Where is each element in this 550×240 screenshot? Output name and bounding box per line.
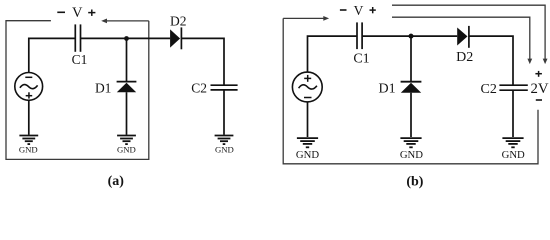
svg-text:C2: C2 [191, 81, 207, 96]
voltage arrow V (b), pointing right [283, 16, 329, 21]
wire: C2 to ground (b) [512, 90, 514, 137]
svg-text:GND: GND [19, 145, 38, 155]
annotation line with inner 2V arrow (b) [392, 17, 532, 64]
node junction dot (b) [409, 34, 414, 39]
sine squiggle inside source (a) [20, 85, 38, 89]
wire: D1 to ground (a) [126, 92, 128, 135]
diode D2 (b), pointing right [457, 26, 469, 48]
capacitor C2 (a) [211, 85, 238, 90]
svg-text:(a): (a) [108, 174, 125, 189]
svg-text:GND: GND [215, 145, 234, 155]
wire: D2 to C2 corner (b) [469, 36, 513, 85]
box (a) frame: top segment, left, bottom, right [6, 21, 149, 160]
svg-text:GND: GND [400, 149, 423, 161]
svg-text:D2: D2 [170, 14, 187, 29]
svg-text:C1: C1 [72, 52, 88, 67]
svg-text:GND: GND [117, 145, 136, 155]
AC source V1 (a) [15, 73, 43, 101]
diode D1 (a), cathode bar up [117, 82, 137, 93]
plus sign inside source (a) [26, 92, 33, 98]
label plus of "- V +" (a) [88, 10, 95, 16]
svg-text:V: V [72, 5, 83, 21]
capacitor C1 (a) [75, 24, 80, 51]
node junction dot (a) [124, 36, 129, 41]
ground under C2 (b) [502, 138, 523, 147]
wire: node down to D1 (a) [126, 39, 128, 82]
diode D1 (b), cathode bar up [401, 82, 422, 93]
ground under D1 (a) [117, 136, 136, 145]
sine squiggle inside source (b) [299, 85, 317, 89]
wire: AC source top riser and run to C1 (b) [308, 36, 358, 72]
ground under D1 (b) [400, 138, 421, 147]
wire: AC source bottom to ground (b) [307, 102, 309, 137]
svg-text:C2: C2 [481, 82, 497, 97]
ground under C2 (a) [215, 136, 234, 145]
svg-text:C1: C1 [353, 51, 369, 66]
label plus above 2V (b) [535, 71, 542, 77]
svg-text:D1: D1 [95, 80, 112, 95]
wire: D2 to C2 corner (a) [181, 38, 224, 85]
wire: D1 to ground (b) [410, 93, 412, 137]
box (b) frame: left, bottom, partial right [283, 18, 538, 163]
svg-text:(b): (b) [406, 174, 423, 189]
minus sign inside source (b) [304, 97, 312, 99]
ground under source (a) [19, 136, 38, 145]
ground under source (b) [297, 138, 318, 147]
label minus of "- V +" (b) [340, 9, 347, 11]
wire: AC source top riser and run to C1 (a) [29, 38, 76, 72]
svg-text:GND: GND [502, 149, 525, 161]
capacitor C2 (b) [499, 85, 527, 90]
wire: C1 to D2 through node (a) [81, 37, 171, 39]
svg-text:2V: 2V [530, 81, 548, 97]
label minus of "- V +" (a) [57, 11, 65, 13]
minus sign inside source (a) [25, 76, 32, 78]
diode D2 (a), pointing right [170, 27, 181, 49]
capacitor C1 (b) [357, 22, 362, 49]
wire: AC source bottom to ground (a) [28, 100, 30, 135]
label minus below 2V (b) [536, 99, 542, 101]
wire: C2 to ground (a) [223, 90, 225, 135]
voltage arrow V (a), pointing left [101, 19, 149, 24]
svg-text:V: V [354, 3, 364, 18]
annotation line with outer 2V arrow (b) [392, 5, 548, 64]
label plus of "- V +" (b) [370, 7, 376, 13]
svg-text:GND: GND [296, 149, 319, 161]
wire: C1 to D2 through node (b) [362, 35, 457, 37]
svg-text:D1: D1 [379, 82, 396, 97]
plus sign inside source (b) [304, 75, 311, 82]
AC source V2 (b) [292, 72, 322, 102]
svg-text:D2: D2 [456, 50, 473, 65]
wire: node down to D1 (b) [410, 36, 412, 82]
